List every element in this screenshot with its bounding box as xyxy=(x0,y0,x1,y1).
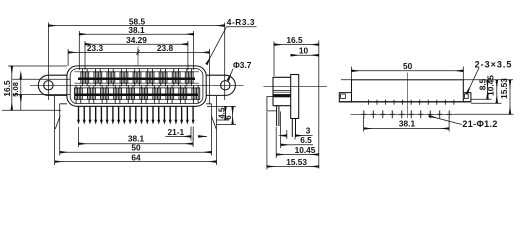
bar centerline xyxy=(406,73,408,119)
row2 line xyxy=(351,113,456,115)
right ear xyxy=(206,75,235,95)
dim 10.45 line xyxy=(276,154,319,156)
svg-text:Φ3.7: Φ3.7 xyxy=(233,60,252,70)
dim 23.3 line xyxy=(68,51,138,53)
dim mid tick xyxy=(136,49,139,56)
contact carrier top row box xyxy=(75,72,199,83)
left slot xyxy=(341,94,346,98)
dim 4.5 line xyxy=(224,106,226,120)
svg-text:5.08: 5.08 xyxy=(11,82,20,97)
side centerline xyxy=(264,85,328,87)
dim 38.1 top line xyxy=(79,33,193,35)
pins (21) xyxy=(77,106,195,124)
dim 10.45 extension xyxy=(275,127,277,158)
svg-text:10.45: 10.45 xyxy=(486,75,496,96)
svg-text:6: 6 xyxy=(224,115,233,120)
svg-text:10.45: 10.45 xyxy=(295,145,316,155)
hole centerline horizontal xyxy=(30,84,244,86)
right slot xyxy=(464,94,468,98)
bar body xyxy=(352,80,464,102)
flange xyxy=(291,75,299,119)
contact row bottom dark band xyxy=(75,94,198,97)
svg-text:4-R3.3: 4-R3.3 xyxy=(227,17,255,27)
shell outer xyxy=(67,66,206,106)
pins left column xyxy=(277,106,279,126)
svg-text:10: 10 xyxy=(299,45,309,55)
svg-text:3: 3 xyxy=(306,126,311,136)
mid dim right reference line xyxy=(318,41,320,169)
lower step xyxy=(267,97,277,111)
contact row top dark band xyxy=(78,78,195,81)
svg-text:15.53: 15.53 xyxy=(286,157,307,167)
rv dim 8.5 line xyxy=(487,80,489,100)
pins right column xyxy=(292,119,295,138)
dim 15.53 line xyxy=(267,166,319,168)
dim 50 extensions xyxy=(60,104,212,156)
right end block xyxy=(463,93,471,102)
dim 16.5 mid extension xyxy=(273,42,275,77)
leader 4-R3.3 xyxy=(207,27,257,64)
shell thick band xyxy=(273,94,291,97)
dim 15.53 extension xyxy=(266,112,268,170)
dim 50 right-view line xyxy=(352,70,464,72)
dim 16.5 mid line xyxy=(274,44,319,46)
dimension graphics xyxy=(2,23,257,166)
dim 38.1 bottom extensions xyxy=(79,127,194,147)
dim 6.5 extension xyxy=(280,112,282,149)
dim 50 right-view extensions xyxy=(352,67,464,81)
svg-text:15.53: 15.53 xyxy=(499,78,509,99)
dim 50 line xyxy=(60,151,212,153)
bar bottom edge full xyxy=(339,101,471,103)
dim 38.1 rv line xyxy=(364,128,450,130)
svg-text:23.8: 23.8 xyxy=(157,43,174,53)
svg-text:23.3: 23.3 xyxy=(87,43,104,53)
dim 6.5 line xyxy=(281,144,295,146)
contact row bottom (10 contact pairs) xyxy=(75,86,200,104)
svg-text:38.1: 38.1 xyxy=(128,25,145,35)
rv row1 holes (11) xyxy=(366,100,456,105)
dim 21-1 underline+arrows xyxy=(166,135,192,137)
left ear xyxy=(38,75,67,95)
dim 5.08 extensions xyxy=(13,79,71,94)
dim 10 mid line xyxy=(291,54,319,56)
dim 5.08 line with outside arrows xyxy=(20,74,22,111)
dim 23.3 extension line xyxy=(67,49,69,66)
dim 38.1 top extension lines xyxy=(79,31,193,70)
dim 34.29 extension lines xyxy=(85,41,188,70)
contact carrier bottom row box xyxy=(75,88,199,99)
dim 6 extension xyxy=(216,123,236,125)
dim 64 line xyxy=(55,161,217,163)
svg-text:50: 50 xyxy=(403,61,413,71)
rv dim 15.53 line xyxy=(509,80,511,115)
rv dim 15.53 bottom ext (row2 extended) xyxy=(455,113,514,115)
rv dim 10.45 line xyxy=(496,80,498,104)
leader 2-3x3.5 xyxy=(467,68,479,94)
hole right xyxy=(221,81,230,90)
right side dim 4.5 extensions xyxy=(207,106,236,120)
rv dim 10.45 bottom ext xyxy=(471,102,502,104)
dim 3 extensions xyxy=(287,130,295,140)
dim 58.5 line xyxy=(48,25,224,27)
svg-text:50: 50 xyxy=(131,142,141,152)
svg-text:21-1: 21-1 xyxy=(167,127,184,137)
dim 3 outside arrows xyxy=(280,135,286,137)
dim 6 line xyxy=(232,106,234,124)
shell box xyxy=(273,77,291,105)
contact row top (9 contact pairs) xyxy=(81,69,193,86)
svg-text:2-3×3.5: 2-3×3.5 xyxy=(475,59,513,69)
dim 58.5 extension lines (through mounting holes) xyxy=(48,23,224,101)
left leg xyxy=(55,96,67,129)
dim 23.8 line xyxy=(138,51,210,53)
left dim 16.5 line xyxy=(11,66,13,110)
leader dia3.7 xyxy=(228,69,233,81)
dim 23.8 right extension xyxy=(209,49,211,104)
svg-text:64: 64 xyxy=(131,153,141,163)
dim 21-1 extensions xyxy=(191,127,193,141)
svg-text:16.5: 16.5 xyxy=(286,35,303,45)
leader 21-dia1.2 xyxy=(429,116,462,125)
svg-text:21-Φ1.2: 21-Φ1.2 xyxy=(462,119,497,129)
svg-text:34.29: 34.29 xyxy=(126,35,147,45)
dim 34.29 line xyxy=(85,43,188,45)
left end block xyxy=(339,93,351,102)
right leg xyxy=(206,96,216,129)
body centerline vertical xyxy=(137,47,139,67)
dim 38.1 bottom line xyxy=(79,143,194,145)
rv row2 holes (10) xyxy=(361,110,452,118)
dim 64 extensions xyxy=(55,112,217,165)
rv top extension to right xyxy=(341,79,513,81)
hole left xyxy=(44,81,53,90)
svg-text:38.1: 38.1 xyxy=(399,118,416,128)
left side dim 16.5 extensions xyxy=(2,66,67,110)
rv dim 8.5 bottom ext xyxy=(471,98,492,100)
svg-text:6.5: 6.5 xyxy=(300,135,312,145)
dim 38.1 rv extensions xyxy=(364,117,450,132)
shell inner lines xyxy=(273,91,291,93)
shell inner xyxy=(70,69,203,104)
